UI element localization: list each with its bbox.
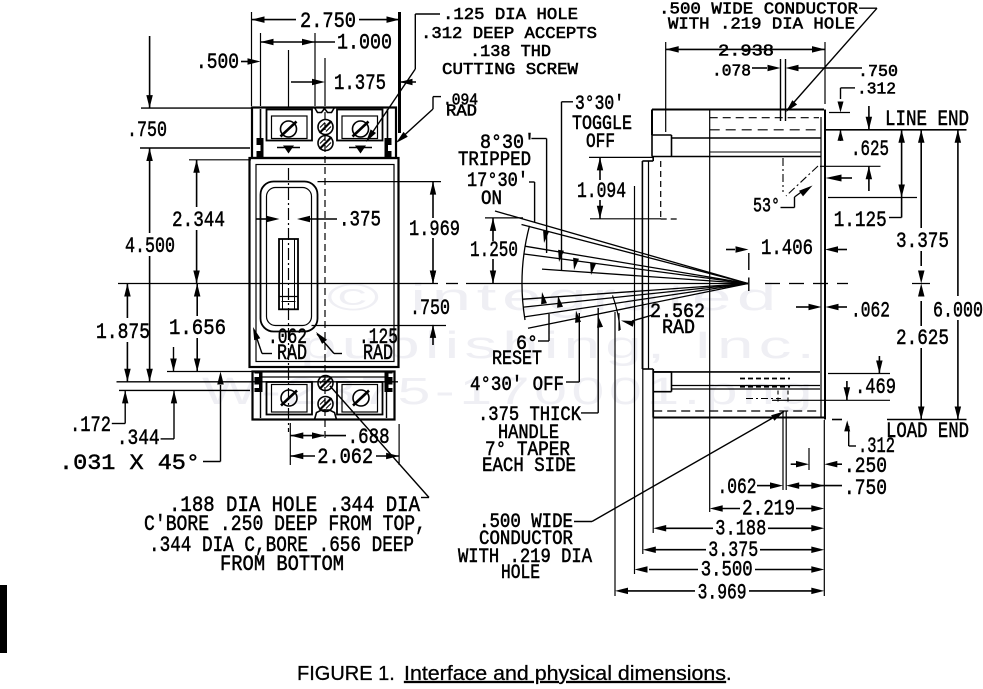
svg-text:.: .	[726, 663, 732, 685]
svg-text:2.625: 2.625	[896, 326, 949, 351]
svg-text:1.875: 1.875	[96, 320, 150, 345]
side load hole hidden bot	[740, 386, 790, 388]
dimension 3.188	[653, 418, 824, 542]
front main body inner line	[256, 165, 394, 362]
dimension .078	[712, 63, 898, 83]
watermark line 3	[202, 371, 817, 413]
load end reference	[832, 419, 969, 444]
front top cutting screw lower	[318, 136, 333, 151]
front top notch	[315, 108, 335, 113]
svg-text:ON: ON	[481, 188, 502, 211]
dimension .750 front right	[312, 271, 451, 346]
handle ray ON upper	[495, 211, 748, 284]
handle ray RESET lower	[528, 284, 748, 329]
angle arc arrowhead 8	[597, 316, 603, 328]
svg-text:.750: .750	[858, 63, 898, 82]
dimension 4.500	[125, 186, 175, 382]
side body top edge	[652, 109, 824, 111]
angle arc arrowhead 5	[541, 292, 547, 304]
side escutcheon bottom step	[642, 368, 653, 370]
dimension 2.625	[896, 284, 949, 420]
dimension .500	[196, 50, 289, 108]
svg-text:2.062: 2.062	[317, 445, 373, 470]
svg-text:EACH SIDE: EACH SIDE	[482, 455, 576, 478]
dimension .172	[70, 390, 128, 438]
dimension 2.219	[710, 497, 825, 522]
side line-end conductor bottom	[672, 156, 822, 158]
front right clamp plate symbol	[349, 146, 372, 154]
note .031 X 45 deg	[59, 372, 224, 477]
dimension 1.875	[96, 284, 150, 382]
dimension 3.969	[615, 312, 824, 606]
dimension .750 left	[127, 36, 251, 186]
dimension 3.375 right	[896, 130, 949, 284]
note 3deg30 toggle off	[562, 93, 633, 271]
side hidden toggle off vertical	[660, 161, 662, 219]
svg-text:OFF: OFF	[586, 131, 615, 154]
angle arc arrowhead 4	[590, 263, 596, 275]
note .125 RAD	[316, 325, 398, 366]
svg-text:.500: .500	[196, 50, 239, 75]
svg-text:.625: .625	[851, 137, 889, 162]
dimension .250	[791, 448, 887, 479]
svg-text:1.250: 1.250	[470, 238, 518, 263]
side top-left wall	[651, 110, 653, 136]
side load hole edge left	[777, 391, 779, 405]
note 2.562 RAD	[621, 301, 705, 340]
svg-text:3.500: 3.500	[701, 558, 753, 583]
handle off tip tick	[618, 313, 620, 331]
side body right edge outer	[824, 110, 826, 420]
front top-right terminal cavity	[337, 110, 383, 141]
front mounting hole centerline	[324, 112, 326, 438]
toggle pivot tick	[748, 253, 750, 291]
svg-text:53°: 53°	[753, 196, 780, 219]
dimension 1.375	[291, 58, 416, 106]
front top terminal block outline	[252, 108, 396, 159]
svg-text:6.000: 6.000	[933, 299, 983, 324]
front bottom block inner wall left	[260, 373, 262, 418]
horizontal centerline	[118, 283, 848, 285]
side load conductor top	[653, 371, 820, 373]
svg-text:2.938: 2.938	[718, 43, 774, 62]
svg-text:2.344: 2.344	[172, 208, 225, 233]
angle arc arrowhead 6	[557, 296, 563, 308]
handle ray TRIPPED lower	[524, 254, 748, 284]
angle arc arrowhead 3	[573, 258, 579, 270]
note .500 wide conductor bottom	[458, 412, 784, 586]
dimension 1.250	[470, 218, 523, 284]
svg-text:.138 THD: .138 THD	[470, 43, 551, 62]
side load conductor mid2	[672, 388, 821, 390]
svg-text:Interface and physical dimensi: Interface and physical dimensions	[404, 663, 726, 685]
svg-text:RESET: RESET	[492, 348, 542, 371]
side line-end conductor top	[672, 137, 822, 139]
front bottom block inner wall right	[386, 373, 388, 418]
angle arc arrowhead 1	[543, 231, 549, 243]
svg-text:LOAD END: LOAD END	[886, 419, 969, 444]
front top block inner wall right	[387, 109, 389, 156]
dimension 1.094	[577, 157, 661, 218]
angle arc arrowhead 2	[558, 250, 564, 262]
front top-left terminal cavity	[267, 110, 313, 141]
note 17deg30 on	[467, 170, 535, 222]
side hidden case seam dashed	[710, 117, 819, 119]
front bottom terminal block outline	[253, 372, 395, 420]
dimension .469	[772, 356, 896, 400]
front bottom mounting hole upper	[318, 376, 333, 391]
svg-text:TRIPPED: TRIPPED	[458, 149, 531, 172]
dimension .344	[117, 347, 178, 451]
front toggle recess inner	[267, 188, 312, 326]
svg-text:RAD: RAD	[277, 341, 307, 366]
front top-right terminal screw	[353, 121, 369, 137]
svg-text:1.969: 1.969	[409, 217, 460, 242]
svg-text:WITH .219 DIA HOLE: WITH .219 DIA HOLE	[668, 16, 855, 35]
svg-text:.344: .344	[117, 426, 160, 451]
dimension 3.375 bottom	[643, 302, 825, 563]
front left clamp plate symbol	[277, 146, 300, 154]
side load hole hidden top	[740, 378, 790, 380]
side hole centerline	[782, 158, 784, 192]
angle arc arrowhead 7	[575, 311, 581, 323]
front bottom notch	[315, 410, 337, 420]
side body bottom edge	[653, 417, 825, 419]
side escutcheon inner edge	[648, 161, 650, 369]
svg-text:.469: .469	[855, 375, 896, 400]
front bottom-right terminal screw	[353, 390, 369, 406]
svg-text:4°30' OFF: 4°30' OFF	[470, 374, 564, 397]
svg-text:RAD: RAD	[363, 341, 393, 366]
dimension .312 bottom	[844, 420, 895, 459]
svg-text:.750: .750	[127, 118, 167, 143]
front bottom mounting hole lower	[318, 397, 333, 412]
svg-text:RAD: RAD	[446, 103, 477, 122]
side body right edge inner	[820, 117, 822, 418]
dimension .625	[820, 106, 889, 191]
front top-left terminal screw	[281, 121, 297, 137]
dimension 1.125	[828, 130, 917, 233]
dimension 2.938	[666, 42, 825, 132]
svg-text:.750: .750	[844, 476, 887, 501]
svg-text:1.094: 1.094	[577, 179, 626, 204]
handle ray RESET upper	[525, 284, 749, 317]
dimension 1.406	[726, 236, 847, 261]
side load hole edge right	[787, 391, 789, 405]
svg-text:.078: .078	[712, 63, 751, 82]
mounting plane line lower	[119, 389, 250, 391]
svg-text:CUTTING SCREW: CUTTING SCREW	[442, 61, 579, 80]
note 6deg reset	[492, 314, 549, 371]
figure caption	[297, 663, 732, 685]
dimension .062 load	[718, 411, 888, 501]
note 4deg30 off	[470, 313, 579, 397]
svg-text:3.969: 3.969	[698, 581, 747, 606]
svg-text:.062: .062	[851, 299, 890, 324]
front toggle handle	[279, 239, 298, 309]
side 53 deg hidden diagonal	[786, 166, 818, 196]
leader arrow at case right surface	[826, 175, 853, 182]
dimension 2.062	[290, 424, 399, 470]
svg-text:FIGURE 1.: FIGURE 1.	[297, 663, 395, 685]
handle ray toggle-off	[542, 269, 748, 283]
front bottom-left terminal cavity	[267, 382, 313, 415]
side line-end conductor fold	[710, 151, 821, 153]
side load hidden dashed	[653, 410, 821, 412]
dimension .688	[290, 423, 389, 465]
mounting plane line upper	[117, 381, 399, 383]
svg-text:.312 DEEP ACCEPTS: .312 DEEP ACCEPTS	[421, 25, 597, 44]
svg-text:1.125: 1.125	[834, 208, 887, 233]
side hole extension left	[780, 59, 782, 121]
svg-text:3.375: 3.375	[896, 229, 949, 254]
svg-text:4.500: 4.500	[125, 234, 175, 259]
note .094 RAD	[396, 92, 478, 144]
svg-text:.312: .312	[857, 81, 896, 100]
dimension .062 right	[796, 299, 890, 324]
side escutcheon top	[642, 160, 653, 162]
svg-text:HOLE: HOLE	[501, 562, 540, 585]
dimension 6.000	[933, 130, 983, 420]
side load clamp square	[653, 372, 671, 392]
side load conductor mid1	[672, 385, 821, 387]
handle ray OFF upper	[523, 284, 748, 300]
side hidden line-end dashed	[710, 129, 819, 131]
front bottom block inner top line	[261, 376, 386, 378]
bottom block top extension line	[167, 371, 252, 373]
dimension .375 toggle	[256, 208, 381, 233]
handle ray ON lower	[522, 225, 749, 284]
watermark line 1	[327, 277, 782, 319]
side top clamp square	[652, 135, 672, 157]
svg-text:.031 X 45°: .031 X 45°	[59, 451, 200, 476]
svg-text:1.375: 1.375	[334, 71, 386, 96]
note .125 DIA HOLE	[366, 6, 597, 142]
svg-text:1.656: 1.656	[169, 316, 226, 341]
dimension 1.000	[261, 31, 393, 107]
front main body outline	[250, 158, 399, 367]
svg-text:.125 DIA HOLE: .125 DIA HOLE	[443, 6, 578, 25]
side lower-left wall	[652, 369, 654, 418]
side escutcheon outer edge	[641, 161, 643, 369]
front top cutting screw upper	[318, 120, 333, 135]
watermark line 2	[300, 325, 820, 367]
side hidden toggle off bottom	[661, 218, 678, 220]
svg-text:RAD: RAD	[662, 317, 695, 340]
svg-text:LINE END: LINE END	[885, 107, 969, 132]
dimension .312 top	[829, 81, 896, 142]
front toggle centerline	[288, 168, 290, 432]
note .375 thick handle	[478, 308, 598, 478]
scan artifact left edge	[0, 585, 7, 653]
line end reference	[824, 107, 969, 132]
centerline tick right	[912, 283, 930, 285]
svg-text:.172: .172	[70, 413, 111, 438]
dimension 3.500	[635, 186, 825, 583]
note 53 deg	[753, 186, 813, 219]
svg-text:.375: .375	[339, 208, 381, 233]
note .188 DIA HOLE	[144, 386, 429, 577]
side load hole centerline	[746, 398, 781, 400]
handle ray OFF lower	[524, 284, 749, 308]
front bottom-left corner clip	[255, 372, 263, 393]
front top block inner wall left	[260, 109, 262, 156]
handle travel arc	[522, 226, 529, 320]
front bottom-right terminal cavity	[337, 382, 383, 415]
side left wall step	[652, 157, 654, 162]
dimension 1.969	[318, 182, 461, 284]
svg-text:1.000: 1.000	[337, 31, 392, 56]
note 8deg30 tripped	[458, 132, 547, 253]
handle radius arc 2.562	[613, 295, 621, 330]
note .062 RAD	[253, 325, 307, 366]
front toggle recess outer	[261, 182, 318, 332]
side interior vertical line	[709, 110, 711, 513]
svg-text:.750: .750	[410, 296, 450, 321]
side hole extension right	[785, 59, 787, 121]
dimension 2.344	[172, 160, 251, 284]
svg-text:1.406: 1.406	[761, 236, 813, 261]
front bottom-left terminal screw	[281, 390, 297, 406]
dimension 2.750	[252, 9, 400, 133]
front bottom-right corner clip	[385, 372, 394, 393]
dimension 1.656	[169, 284, 226, 372]
svg-text:FROM BOTTOM: FROM BOTTOM	[220, 552, 344, 577]
handle ray TRIPPED upper	[525, 246, 748, 283]
note .500 wide conductor top	[659, 1, 877, 113]
front top-left corner clip	[257, 138, 264, 158]
front top-right corner clip	[385, 138, 393, 158]
